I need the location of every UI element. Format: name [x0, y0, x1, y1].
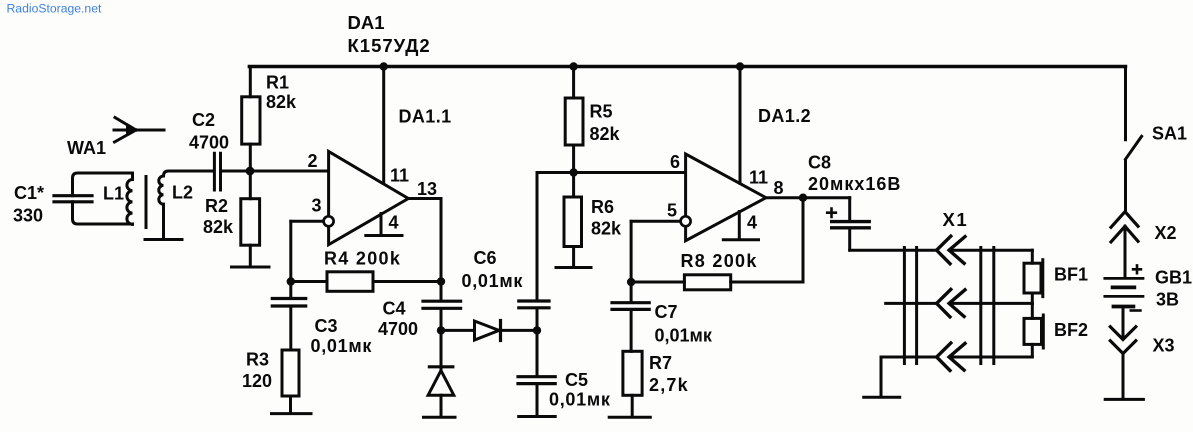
node junction R5 R6 — [569, 168, 577, 176]
svg-text:82k: 82k — [266, 92, 297, 112]
svg-text:5: 5 — [667, 201, 677, 221]
pin 5 inverting circle — [681, 216, 691, 226]
op-amp U2 DA1.2 — [686, 106, 811, 241]
ground under D2 — [424, 416, 456, 419]
svg-text:82k: 82k — [591, 219, 622, 239]
ground under L2 — [145, 238, 182, 241]
pin 3 inverting circle — [324, 216, 334, 226]
svg-text:C1*: C1* — [14, 183, 44, 203]
svg-text:R8 200k: R8 200k — [681, 251, 758, 271]
wire tank loop — [73, 173, 133, 224]
resistor R7 — [623, 351, 689, 416]
capacitor C7 — [612, 282, 713, 351]
resistor R6 — [564, 173, 622, 267]
svg-text:DA1: DA1 — [348, 12, 385, 33]
node junction rail pin11 DA1.1 — [380, 62, 388, 70]
antenna WA1 — [67, 118, 164, 159]
resistor R3 — [242, 350, 299, 413]
svg-text:RadioStorage.net: RadioStorage.net — [7, 2, 102, 16]
node junction C7 R8 — [627, 278, 635, 286]
node junction R4 C3 — [287, 277, 295, 285]
capacitor C2 — [189, 110, 229, 190]
svg-text:R2: R2 — [205, 196, 228, 216]
svg-text:82k: 82k — [203, 217, 234, 237]
node junction C4 diodes — [437, 326, 445, 334]
svg-text:L1: L1 — [103, 184, 124, 204]
svg-text:С4: С4 — [383, 299, 406, 319]
svg-text:11: 11 — [749, 168, 768, 188]
svg-text:0,01мк: 0,01мк — [311, 336, 373, 356]
switch SA1 — [1126, 67, 1188, 211]
capacitor C1 — [13, 183, 92, 226]
svg-text:3В: 3В — [1156, 290, 1179, 310]
capacitor C8 — [808, 153, 901, 251]
svg-text:WA1: WA1 — [67, 138, 106, 158]
ground bar pin 4 — [366, 234, 402, 237]
svg-text:R3: R3 — [246, 350, 269, 370]
svg-text:X2: X2 — [1155, 223, 1177, 243]
pin 4 wire DA1.2 — [738, 212, 741, 239]
svg-text:330: 330 — [13, 206, 43, 226]
svg-text:BF1: BF1 — [1054, 265, 1088, 285]
ground under C5 — [519, 415, 556, 418]
svg-text:SA1: SA1 — [1152, 124, 1187, 144]
capacitor C5 — [518, 330, 611, 415]
ground under R2 — [232, 266, 270, 269]
svg-text:0,01мк: 0,01мк — [549, 390, 611, 410]
pin 11 wire — [382, 67, 385, 183]
wire X1 row1 — [850, 249, 1033, 252]
op-amp U1 DA1.1 — [329, 107, 452, 245]
ground under R6 — [556, 266, 591, 269]
svg-text:R5: R5 — [590, 102, 613, 122]
ground under R3 — [272, 412, 312, 415]
svg-text:2: 2 — [308, 151, 318, 171]
capacitor C3 — [272, 282, 372, 357]
wire C6 to pin6 DA1.2 — [537, 171, 686, 174]
wire top power rail — [249, 65, 1125, 69]
wire pin3 to feedback node — [289, 221, 292, 281]
svg-text:4: 4 — [747, 213, 757, 233]
svg-text:DA1.1: DA1.1 — [399, 107, 452, 127]
node junction D1 C6 C5 — [533, 326, 541, 334]
svg-text:R4 200k: R4 200k — [324, 249, 401, 269]
resistor R1 — [242, 67, 297, 172]
svg-text:6: 6 — [670, 152, 680, 172]
resistor R4 — [291, 249, 441, 292]
pin 8 output wire — [766, 196, 850, 199]
earphone BF2 — [1024, 303, 1088, 357]
svg-text:DA1.2: DA1.2 — [758, 106, 811, 126]
resistor R5 — [565, 67, 620, 173]
svg-text:С8: С8 — [808, 153, 831, 173]
diode D2 — [428, 330, 454, 416]
node junction output R8 C8 — [799, 194, 807, 202]
svg-text:4: 4 — [389, 213, 399, 233]
connector X3 — [1110, 307, 1174, 399]
svg-text:X3: X3 — [1153, 336, 1175, 356]
wire X1 row2 — [886, 302, 1033, 305]
core transformer bar — [145, 177, 148, 228]
svg-text:120: 120 — [242, 371, 272, 391]
svg-text:GB1: GB1 — [1155, 268, 1192, 288]
svg-text:L2: L2 — [172, 183, 193, 203]
svg-text:82k: 82k — [590, 124, 621, 144]
svg-text:C7: C7 — [655, 302, 678, 322]
svg-text:R1: R1 — [266, 73, 289, 93]
svg-text:R6: R6 — [591, 197, 614, 217]
inductor L1 — [103, 173, 133, 224]
wire pin5 to R8 node — [630, 221, 633, 282]
battery GB1 — [1105, 265, 1192, 310]
svg-text:X1: X1 — [943, 209, 969, 230]
svg-text:0,01мк: 0,01мк — [462, 271, 524, 291]
pin 13 output wire — [408, 199, 441, 282]
svg-text:C5: C5 — [565, 370, 588, 390]
node junction C2 R1 R2 — [246, 167, 255, 176]
ground bar pin 4 DA1.2 — [723, 238, 758, 241]
svg-text:13: 13 — [417, 179, 437, 199]
connector pins row3 — [937, 343, 965, 371]
svg-text:С3: С3 — [315, 316, 338, 336]
ground under X1 — [864, 396, 900, 399]
svg-text:2,7k: 2,7k — [649, 375, 689, 395]
pin 11 wire DA1.2 — [739, 67, 742, 184]
svg-text:8: 8 — [774, 178, 784, 198]
svg-text:4700: 4700 — [189, 133, 229, 153]
node junction rail pin11 DA1.2 — [736, 62, 744, 70]
svg-text:20мкх16В: 20мкх16В — [808, 174, 901, 194]
ground under X3 — [1105, 398, 1143, 401]
connector pins row1 — [937, 236, 965, 264]
node junction rail R5 — [569, 62, 577, 70]
earphone BF1 — [1024, 250, 1088, 303]
ground under R7 — [609, 416, 650, 419]
svg-text:С6: С6 — [474, 248, 497, 268]
svg-text:3: 3 — [312, 196, 322, 216]
connector pins row2 — [937, 289, 965, 317]
wire X1 row3 — [881, 357, 1032, 396]
diode D1 — [475, 321, 501, 341]
capacitor C6 — [462, 173, 550, 331]
svg-text:R7: R7 — [649, 353, 672, 373]
wire C2 to pin2 DA1.1 — [222, 170, 329, 173]
svg-text:К157УД2: К157УД2 — [348, 35, 431, 56]
svg-text:C2: C2 — [192, 110, 215, 130]
inductor L2 — [159, 171, 213, 238]
resistor R2 — [203, 171, 260, 266]
resistor R8 — [631, 198, 803, 290]
pin 5 wire — [631, 220, 681, 223]
pin 4 wire — [380, 214, 383, 235]
node junction R4 output C4 — [437, 277, 445, 285]
capacitor C4 — [378, 282, 461, 340]
wire detector row — [441, 329, 537, 332]
svg-text:0,01мк: 0,01мк — [655, 326, 713, 346]
svg-text:4700: 4700 — [378, 319, 418, 339]
svg-text:11: 11 — [390, 166, 409, 186]
connector X2 — [1111, 212, 1177, 277]
connector X1 — [904, 209, 993, 364]
svg-text:BF2: BF2 — [1054, 320, 1088, 340]
pin 3 wire — [291, 220, 324, 223]
